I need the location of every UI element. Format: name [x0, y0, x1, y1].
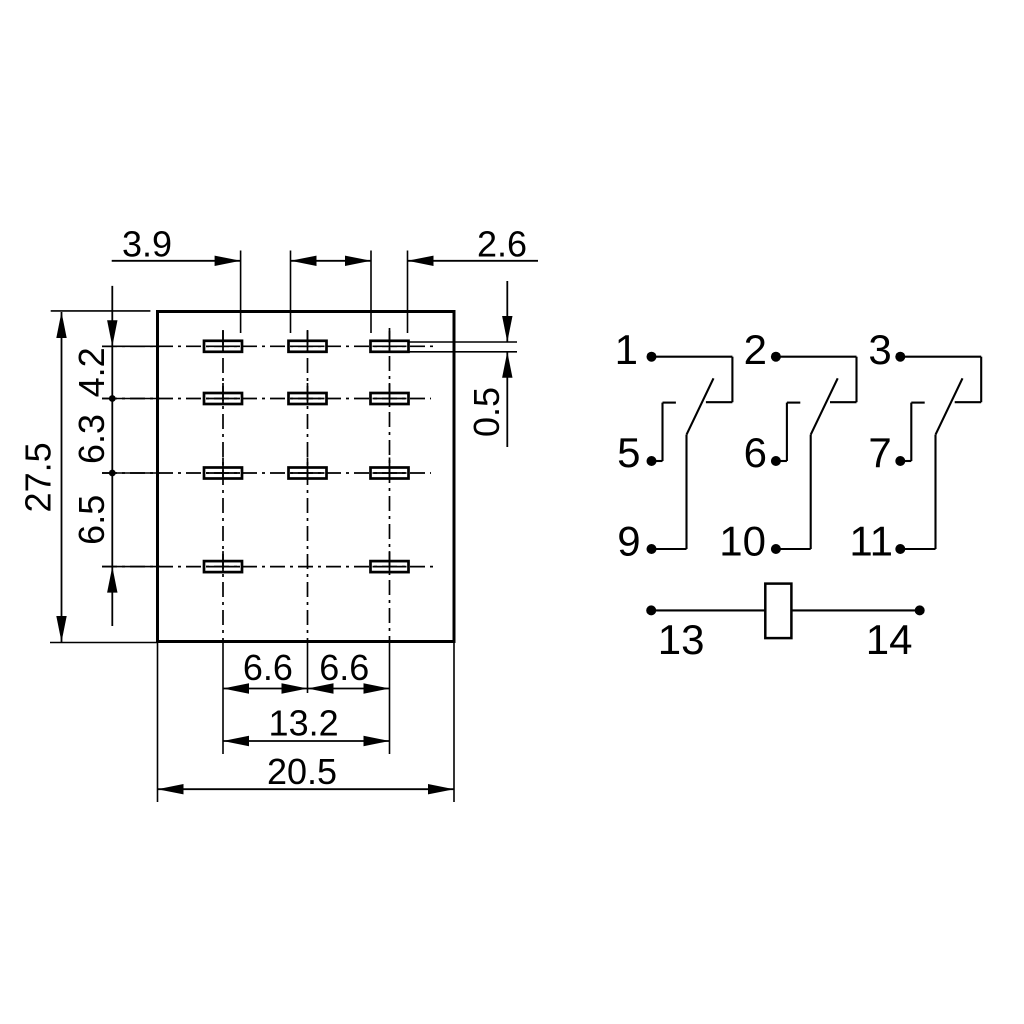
pin pad 3: [371, 331, 409, 353]
svg-text:2: 2: [744, 326, 767, 373]
extension line pad3 right edge: [407, 251, 409, 334]
coil wire pin 14 side: [791, 609, 919, 611]
pin pad 1: [204, 331, 242, 353]
row 1 center line: [102, 345, 433, 347]
extension line column 3 below: [389, 642, 391, 755]
dimension 20.5 (body width): [158, 751, 455, 794]
extension line row 2: [102, 398, 160, 400]
svg-text:3: 3: [868, 326, 891, 373]
extension line row 3: [102, 472, 160, 474]
chain dimension line: [107, 286, 117, 626]
dimension 3.9 (pad gap): [112, 224, 241, 267]
pin pad 6: [289, 383, 327, 405]
coil K1: [765, 584, 791, 639]
svg-text:20.5: 20.5: [267, 751, 337, 792]
coil wire pin 13 side: [651, 609, 765, 611]
svg-text:4.2: 4.2: [71, 347, 112, 397]
svg-text:6.5: 6.5: [71, 495, 112, 545]
column 1 center line: [222, 330, 224, 641]
dimension 6.6 (col2-col3): [308, 647, 390, 694]
pin pad 2: [289, 331, 327, 353]
row 2 center line: [102, 398, 431, 400]
svg-text:13.2: 13.2: [269, 703, 339, 744]
contact C (pins 3-7-11): [895, 352, 981, 554]
svg-text:7: 7: [868, 429, 891, 476]
row 4 center line: [102, 566, 433, 568]
dimension line between pads: [291, 256, 372, 266]
chain junction row 2: [109, 395, 116, 402]
svg-text:14: 14: [866, 616, 913, 663]
svg-text:5: 5: [617, 429, 640, 476]
pin pad 13: [204, 551, 242, 573]
svg-text:27.5: 27.5: [18, 442, 59, 512]
svg-text:0.5: 0.5: [466, 387, 507, 437]
extension line row 4: [102, 566, 160, 568]
extension line column 2 below: [307, 642, 309, 694]
svg-text:2.6: 2.6: [477, 224, 527, 265]
pin pad 7: [371, 383, 409, 405]
pin pad 14: [371, 551, 409, 573]
svg-text:3.9: 3.9: [122, 224, 172, 265]
column 2 center line: [307, 330, 309, 641]
extension line body left below: [157, 642, 159, 803]
svg-text:13: 13: [658, 616, 705, 663]
svg-text:6.6: 6.6: [319, 647, 369, 688]
svg-text:11: 11: [849, 518, 893, 565]
extension line body top: [51, 310, 151, 312]
extension line pad top edge: [408, 341, 518, 343]
extension line pad3 left edge: [370, 251, 372, 334]
pin pad 10: [289, 458, 327, 480]
pin pad 11: [371, 458, 409, 480]
pin pad 9: [204, 458, 242, 480]
extension line pad1 right edge: [240, 251, 242, 334]
row 3 center line: [102, 472, 431, 474]
extension line row 1: [102, 345, 160, 347]
svg-text:1: 1: [615, 326, 638, 373]
svg-text:9: 9: [617, 518, 640, 565]
pin pad 5: [204, 383, 242, 405]
extension line body right below: [453, 642, 455, 803]
svg-text:6.6: 6.6: [243, 647, 293, 688]
extension line pad bottom edge: [408, 351, 518, 353]
svg-text:6: 6: [744, 429, 767, 476]
pin 13 node: [646, 605, 656, 615]
dimension 0.5 (pad thickness): [466, 281, 513, 447]
svg-text:6.3: 6.3: [71, 414, 112, 464]
extension line pad2 left edge: [290, 251, 292, 334]
pin 14 node: [915, 605, 925, 615]
dimension 13.2 (col1-col3): [223, 703, 390, 747]
contact B (pins 2-6-10): [771, 352, 857, 554]
extension line body bottom: [50, 642, 157, 644]
extension line column 1 below: [222, 642, 224, 755]
dimension 6.6 (col1-col2): [223, 647, 308, 694]
chain junction row 3: [109, 470, 116, 477]
svg-text:10: 10: [719, 518, 766, 565]
dimension 27.5 (body height): [18, 312, 67, 642]
dimension 2.6 (pad width): [408, 224, 539, 267]
relay body outline (top view): [158, 312, 455, 642]
contact A (pins 1-5-9): [647, 352, 733, 554]
column 3 center line: [389, 328, 391, 641]
